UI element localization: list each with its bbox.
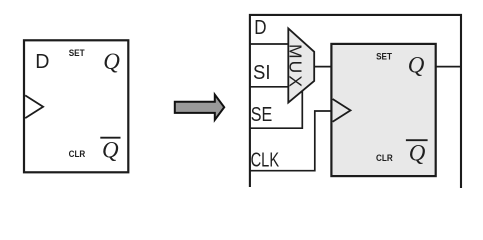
flip-flop U2 body [331, 44, 435, 176]
svg-text:D: D [35, 51, 49, 73]
svg-text:CLK: CLK [251, 149, 280, 171]
clock triangle U1 [25, 95, 43, 118]
wire SE input [250, 91, 302, 129]
wire SI input [250, 86, 288, 88]
wire CLK input [250, 111, 332, 171]
svg-text:SI: SI [253, 62, 271, 84]
svg-text:Q: Q [103, 49, 120, 74]
Qbar overline (U1) [100, 137, 120, 139]
mux M1 body [288, 28, 314, 102]
svg-text:SET: SET [69, 48, 85, 59]
clock triangle U2 [333, 99, 351, 122]
wire Q output [436, 66, 461, 68]
svg-text:CLR: CLR [69, 149, 86, 160]
svg-text:CLR: CLR [376, 153, 393, 164]
transformation arrow [175, 95, 224, 120]
svg-text:Q: Q [408, 53, 425, 78]
wire D input [250, 43, 288, 45]
scan cell outer boundary [250, 15, 461, 188]
svg-text:SET: SET [376, 52, 392, 63]
svg-text:Q: Q [102, 137, 119, 162]
Qbar overline (U2) [406, 139, 428, 141]
svg-text:D: D [254, 17, 266, 39]
svg-text:MUX: MUX [286, 44, 306, 87]
wire mux output to flip-flop D [314, 66, 331, 68]
svg-text:SE: SE [251, 104, 272, 126]
svg-text:Q: Q [409, 141, 426, 166]
flip-flop U1 body [24, 40, 128, 172]
